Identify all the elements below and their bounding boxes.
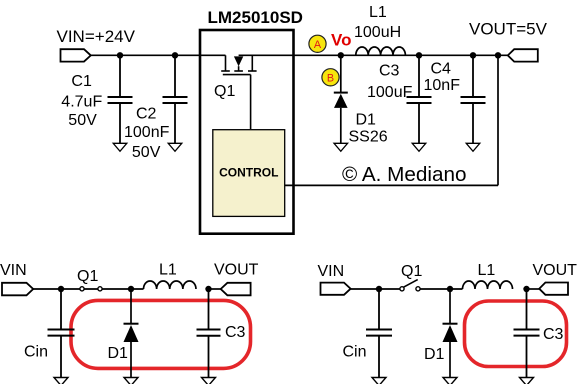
connector VIN bottom-left [2,283,33,296]
node B [322,69,339,86]
svg-text:C1: C1 [71,73,92,90]
svg-text:Cin: Cin [343,344,367,361]
svg-text:Cin: Cin [24,344,48,361]
capacitor Cin bottom-right [366,289,392,378]
ground C1 [113,143,127,151]
ground Cin bottom-left [54,378,68,384]
svg-text:D1: D1 [108,345,129,362]
wire gate to control [250,75,252,129]
junction C3 node [416,52,422,58]
ground D1 [334,143,348,151]
capacitor C3 bottom-left [197,289,221,378]
svg-text:A: A [314,39,322,51]
capacitor Cin bottom-left [48,289,75,378]
capacitor C3 [407,55,432,143]
wire VIN to L1 bottom-left [33,288,143,290]
capacitor C4 [461,55,486,143]
switch Q1 open [400,287,404,291]
transistor Q1 body arrow [234,56,243,66]
ground Cin bottom-right [372,378,386,384]
capacitor C3 bottom-right [514,289,540,378]
svg-text:L1: L1 [159,262,177,279]
switch Q1 closed [80,287,84,291]
svg-text:VIN: VIN [318,263,345,280]
wire VIN rail to Q1 [91,54,226,56]
svg-text:D1: D1 [356,112,377,129]
junction feedback node [495,52,501,58]
svg-text:VOUT: VOUT [214,262,259,279]
junction D1 bottom-right [447,286,453,292]
svg-text:C3: C3 [225,324,246,341]
junction switch node [338,52,344,58]
svg-text:B: B [327,72,334,84]
svg-text:50V: 50V [132,144,161,161]
svg-text:D1: D1 [424,346,445,363]
svg-text:VOUT: VOUT [533,262,578,279]
capacitor C2 [163,55,188,143]
junction C3 bottom-right [523,286,529,292]
wire switch node rail to VOUT [239,54,508,56]
junction C1 node [117,52,123,58]
svg-text:100nF: 100nF [124,124,170,141]
svg-text:© A. Mediano: © A. Mediano [342,163,467,186]
IC U1 LM25010SD outline [200,30,294,234]
svg-text:C4: C4 [431,61,452,78]
junction C3 bottom-left [205,286,211,292]
svg-text:4.7uF: 4.7uF [61,93,102,110]
svg-text:50V: 50V [68,112,97,129]
wire VIN to switch bottom-right [351,288,400,290]
svg-text:VOUT=5V: VOUT=5V [469,20,548,39]
svg-text:L1: L1 [478,262,496,279]
diode D1 bottom-right [443,289,458,378]
svg-text:VIN=+24V: VIN=+24V [57,27,136,46]
wire to VOUT bottom-right [527,288,540,290]
node A [309,35,326,52]
connector VOUT output [508,49,538,61]
junction C2 node [172,52,178,58]
svg-text:100uH: 100uH [354,24,401,41]
ground C3 [412,143,426,151]
svg-text:CONTROL: CONTROL [219,165,278,179]
ground C3 bottom-right [520,378,534,384]
inductor L1 bottom-right [463,281,513,289]
ground C3 bottom-left [202,378,216,384]
transistor Q1 pass FET [221,55,256,74]
capacitor C1 [108,55,133,143]
diode D1 [334,55,348,143]
connector VOUT bottom-right [539,283,568,295]
wire to VOUT bottom-left [209,288,221,290]
junction Cin bottom-right [376,286,382,292]
diode D1 bottom-left [124,289,139,378]
svg-text:SS26: SS26 [349,128,388,145]
wire feedback [285,184,498,186]
svg-text:Q1: Q1 [401,263,422,280]
junction D1 bottom-left [128,286,134,292]
junction Cin bottom-left [58,286,64,292]
svg-text:Q1: Q1 [77,268,98,285]
control block [213,130,285,217]
svg-text:LM25010SD: LM25010SD [208,8,303,27]
svg-text:L1: L1 [369,4,387,21]
svg-text:10nF: 10nF [424,77,461,94]
current loop highlight bottom-right [465,301,567,367]
inductor L1 bottom-left [144,281,196,289]
svg-text:C3: C3 [543,326,564,343]
connector VOUT bottom-left [221,283,251,296]
inductor L1 [356,47,406,55]
ground C2 [168,143,182,151]
junction C4 node [470,52,476,58]
current loop highlight bottom-left [71,300,251,368]
ground D1 bottom-left [124,378,138,384]
connector VIN bottom-right [321,283,351,295]
svg-text:Vo: Vo [331,31,351,50]
svg-text:100uF: 100uF [367,84,413,101]
ground D1 bottom-right [443,378,457,384]
svg-text:Q1: Q1 [214,83,235,100]
connector VIN input [61,49,91,61]
ground C4 [466,143,480,151]
wire switch to L1 bottom-right [420,288,463,290]
svg-text:C2: C2 [136,106,157,123]
svg-text:C3: C3 [379,63,400,80]
svg-text:VIN: VIN [0,262,27,279]
